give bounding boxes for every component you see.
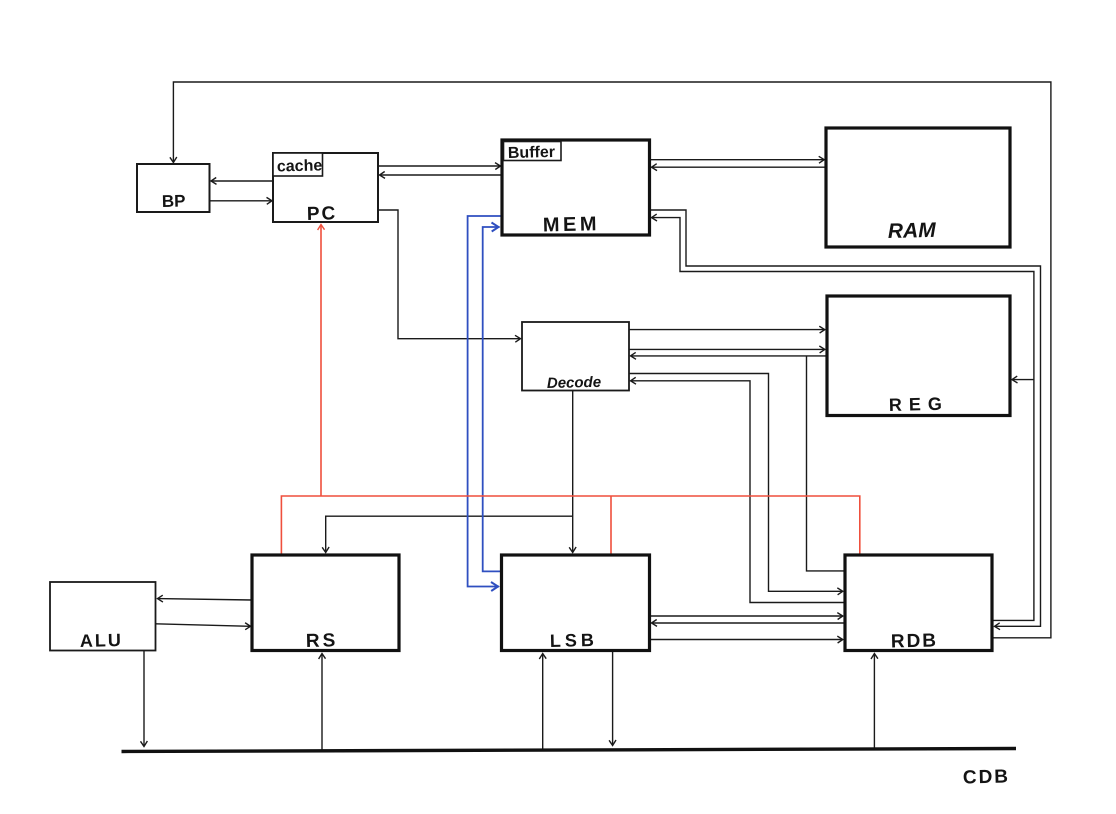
- svg-text:Decode: Decode: [547, 374, 602, 392]
- box RAM: [826, 128, 1010, 247]
- wire ALU to CDB: [143, 651, 145, 747]
- bus CDB: [122, 749, 1017, 752]
- label RAM: [888, 219, 937, 243]
- label ROB: [891, 630, 939, 652]
- wire CDB to ROB: [873, 654, 875, 751]
- wire PC to BP: [211, 180, 273, 182]
- wire ROB to LSB: [652, 622, 846, 624]
- box Decode: [522, 322, 629, 391]
- label Decode: [547, 374, 602, 392]
- box ROB: [845, 555, 992, 651]
- label cache: [277, 157, 323, 175]
- label REG: [889, 394, 949, 415]
- wire Decode to REG lower: [629, 348, 825, 350]
- wire ROB to BP feedback (top): [173, 82, 1051, 638]
- svg-text:REG: REG: [889, 394, 949, 415]
- svg-text:PC: PC: [307, 203, 338, 225]
- wire ROB to MEM (right loop): [652, 218, 1034, 621]
- wire MEM to LSB (blue): [468, 216, 502, 587]
- label ALU: [80, 630, 123, 651]
- wire PC to Decode: [378, 210, 521, 339]
- box RS: [252, 555, 399, 651]
- box PC: [273, 153, 378, 222]
- wire CDB to LSB: [542, 654, 544, 751]
- label MEM: [543, 213, 601, 236]
- svg-text:RDB: RDB: [891, 630, 939, 652]
- svg-text:LSB: LSB: [550, 630, 598, 651]
- box MEM: [502, 140, 650, 235]
- svg-text:BP: BP: [162, 191, 186, 211]
- label PC: [307, 203, 338, 225]
- wire Decode branch to RS: [326, 516, 573, 552]
- wire RAM to MEM: [652, 166, 827, 168]
- wire REG to Decode: [631, 355, 828, 357]
- wire LSB to CDB: [612, 651, 614, 746]
- label Buffer: [508, 144, 555, 162]
- wire ROB branch to REG: [1012, 379, 1034, 381]
- wire red bus RS to ROB: [281, 496, 859, 555]
- wire Decode to REG upper: [629, 329, 825, 331]
- wire LSB to ROB upper: [650, 615, 843, 617]
- wire MEM to RAM: [650, 159, 825, 161]
- wire RS to ALU: [158, 599, 253, 600]
- wire red bus branch to LSB: [610, 496, 612, 555]
- box ALU: [50, 582, 156, 651]
- svg-text:Buffer: Buffer: [508, 144, 555, 162]
- wire Decode to ROB: [629, 374, 843, 592]
- box REG: [827, 296, 1010, 416]
- label RS: [306, 630, 339, 652]
- wire PC to MEM: [378, 165, 501, 167]
- svg-text:MEM: MEM: [543, 213, 601, 236]
- wire CDB to RS: [321, 654, 323, 751]
- tab cache: [273, 153, 323, 176]
- wire MEM to ROB (right loop): [650, 210, 1041, 626]
- box BP: [137, 164, 210, 212]
- wire LSB to MEM (blue): [483, 227, 502, 571]
- svg-text:RS: RS: [306, 630, 339, 652]
- wire LSB to ROB lower: [650, 639, 843, 641]
- svg-text:RAM: RAM: [888, 219, 937, 243]
- wire MEM to PC: [380, 174, 503, 176]
- label LSB: [550, 630, 598, 651]
- wire ALU to RS: [156, 624, 251, 627]
- svg-text:cache: cache: [277, 157, 323, 175]
- label BP: [162, 191, 186, 211]
- tab Buffer: [504, 142, 562, 161]
- box LSB: [502, 555, 650, 651]
- wire ROB to Decode: [631, 381, 846, 603]
- wire BP to PC: [210, 200, 273, 202]
- wire REG branch to ROB: [807, 356, 846, 571]
- label CDB: [963, 766, 1011, 788]
- svg-text:CDB: CDB: [963, 766, 1011, 788]
- svg-text:ALU: ALU: [80, 630, 123, 651]
- wire Decode to LSB: [572, 391, 574, 553]
- wire broadcast bus to PC (red): [320, 225, 322, 497]
